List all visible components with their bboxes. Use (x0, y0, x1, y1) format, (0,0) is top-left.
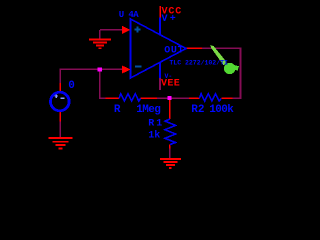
svg-text:1k: 1k (148, 129, 160, 141)
op-amp U4A triangle (131, 19, 187, 78)
lead: R2 right (221, 97, 232, 99)
svg-text:TLC 2272/102/TI: TLC 2272/102/TI (169, 60, 228, 67)
svg-text:V+: V+ (162, 14, 178, 25)
lead: R3 left (106, 97, 120, 99)
svg-text:1Meg: 1Meg (136, 104, 160, 116)
ground (top, at +input) (89, 40, 111, 49)
svg-text:V-: V- (165, 73, 173, 80)
lead: R2 left (189, 97, 199, 99)
ground (below R1) (160, 159, 181, 168)
lead: op-amp output (186, 47, 202, 49)
resistor R1 zigzag (vertical) (165, 119, 176, 145)
op-amp V- pin (159, 63, 161, 79)
resistor R2 zigzag (199, 94, 221, 101)
wire: feedback R2 right up to OUT (202, 48, 241, 98)
op-amp + input symbol (134, 26, 140, 32)
V1 plus mark (55, 94, 59, 98)
svg-text:U 4A: U 4A (119, 10, 139, 20)
pin arrow into -input (122, 65, 131, 73)
svg-text:1: 1 (156, 119, 162, 130)
svg-text:OUT: OUT (164, 46, 184, 57)
wire: junction J1 down to R3 left (100, 70, 106, 98)
lead: R1 bottom (169, 145, 171, 149)
lead: V1 top pin (59, 83, 61, 92)
wire: +input to top ground (100, 30, 123, 39)
wire: J2 to R2 left (170, 97, 190, 99)
svg-text:2: 2 (198, 104, 205, 116)
probe marker (green) (211, 45, 227, 65)
resistor R3 zigzag (119, 94, 141, 101)
wire: V1 top to ground wire corner and along -input net (60, 69, 122, 83)
pin arrow into +input (122, 26, 131, 34)
V1 minus mark (61, 97, 65, 99)
ground (below V1) (48, 138, 72, 149)
node junction J1 (97, 67, 102, 71)
op-amp V+ pin (159, 18, 161, 36)
lead: R1 top (169, 100, 171, 119)
power VEE stub (159, 78, 161, 90)
lead: V1 bottom pin (59, 111, 61, 121)
power VCC stub (159, 6, 161, 18)
svg-text:0: 0 (68, 80, 75, 92)
svg-text:R: R (148, 119, 154, 130)
node junction J2 (168, 96, 172, 100)
lead: R3 right (141, 97, 158, 99)
svg-text:R: R (114, 104, 121, 116)
wire: V1 bottom to ground (59, 121, 61, 137)
wire: R3 right to junction J2 (157, 97, 170, 99)
svg-text:100k: 100k (209, 104, 234, 116)
op-amp - input symbol (135, 65, 142, 67)
wire: R1 bottom to ground (169, 149, 171, 159)
voltage source V1 circle (51, 92, 70, 111)
